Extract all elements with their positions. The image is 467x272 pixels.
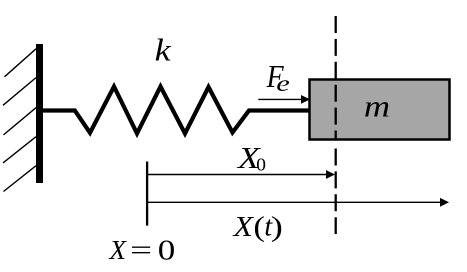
svg-text:k: k bbox=[155, 34, 172, 69]
svg-text:X: X bbox=[231, 210, 254, 242]
svg-text:e: e bbox=[276, 70, 290, 96]
svg-text:(: ( bbox=[253, 210, 265, 243]
svg-text:=: = bbox=[130, 236, 152, 266]
svg-text:X: X bbox=[109, 235, 128, 265]
svg-text:0: 0 bbox=[158, 235, 175, 266]
svg-text:): ) bbox=[271, 211, 283, 243]
svg-text:m: m bbox=[364, 90, 390, 124]
svg-text:0: 0 bbox=[256, 155, 266, 175]
